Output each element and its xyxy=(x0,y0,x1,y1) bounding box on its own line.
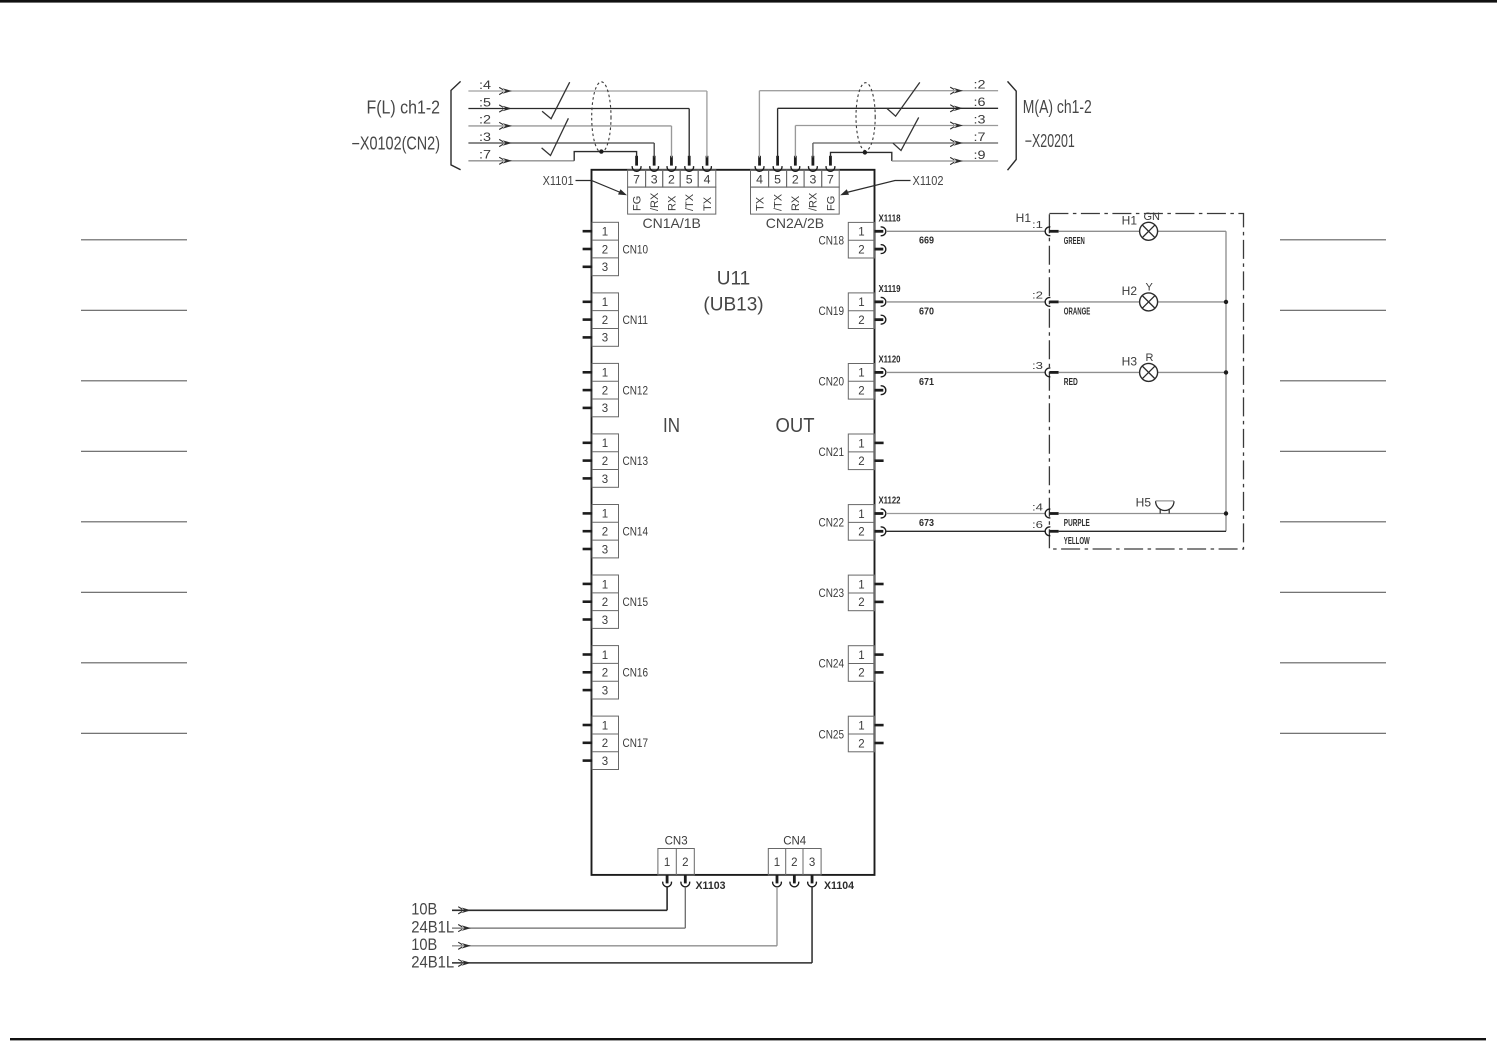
right twist mark pair :3/:7 xyxy=(893,117,919,150)
svg-text:CN18: CN18 xyxy=(819,233,845,247)
svg-text::3: :3 xyxy=(1032,360,1043,372)
right twist mark pair :2/:6 xyxy=(887,82,920,116)
svg-text:2: 2 xyxy=(792,172,799,186)
connector CN23 (2-pin output) xyxy=(848,575,874,611)
left shield junction dot xyxy=(599,149,603,153)
left twist mark pair :2/:3 xyxy=(542,118,569,155)
wire 671 xyxy=(886,371,1045,373)
svg-text:1: 1 xyxy=(858,650,864,662)
svg-text:1: 1 xyxy=(602,297,608,309)
svg-text:/TX: /TX xyxy=(684,193,696,211)
lamp unit enclosure (dash-dot) xyxy=(1049,214,1243,550)
svg-text:671: 671 xyxy=(919,376,934,388)
svg-text:2: 2 xyxy=(858,668,864,680)
wire green to lamp H1 xyxy=(1059,230,1140,232)
svg-text:CN4: CN4 xyxy=(783,834,806,848)
svg-text:1: 1 xyxy=(774,857,780,869)
svg-text:X1119: X1119 xyxy=(879,283,901,295)
svg-text:H2: H2 xyxy=(1122,284,1138,298)
svg-text:Y: Y xyxy=(1146,282,1154,294)
svg-text:5: 5 xyxy=(686,172,693,186)
svg-text:1: 1 xyxy=(602,227,608,239)
svg-text::9: :9 xyxy=(974,148,986,162)
connector CN15 (3-pin input) xyxy=(583,575,619,628)
svg-text::1: :1 xyxy=(1032,219,1043,231)
svg-text:CN24: CN24 xyxy=(819,657,845,671)
svg-text:CN3: CN3 xyxy=(665,834,688,848)
connector CN11 (3-pin input) xyxy=(583,293,619,346)
wire F(L) :5 to CN1A pin xyxy=(468,105,689,157)
wire lamp H3 to bus xyxy=(1158,371,1226,373)
svg-text:TX: TX xyxy=(702,196,714,211)
svg-text:OUT: OUT xyxy=(776,415,815,437)
svg-text:CN20: CN20 xyxy=(819,375,845,389)
svg-text:2: 2 xyxy=(791,857,797,869)
svg-text:RX: RX xyxy=(666,195,678,211)
svg-text:2: 2 xyxy=(858,527,864,539)
svg-text:2: 2 xyxy=(858,738,864,750)
svg-text:3: 3 xyxy=(651,172,658,186)
svg-text:CN19: CN19 xyxy=(819,304,845,318)
wire M(A) :9 (shield drain) xyxy=(831,152,999,164)
svg-text:2: 2 xyxy=(858,244,864,256)
svg-text:1: 1 xyxy=(858,579,864,591)
svg-text:M(A) ch1-2: M(A) ch1-2 xyxy=(1023,97,1092,117)
svg-text:/RX: /RX xyxy=(649,192,661,211)
junction dot H2/bus xyxy=(1224,300,1228,304)
unconnected pin stubs CN21 xyxy=(875,443,884,461)
IC unit U11 (UB13) body xyxy=(592,170,875,875)
svg-text:1: 1 xyxy=(602,720,608,732)
svg-text:X1118: X1118 xyxy=(879,212,901,224)
terminal :2 xyxy=(1045,298,1050,307)
svg-text:TX: TX xyxy=(754,196,766,211)
svg-text:670: 670 xyxy=(919,305,934,317)
svg-text:3: 3 xyxy=(602,403,608,415)
wire 673 (purple) xyxy=(886,513,1045,515)
wire M(A) :6 from CN2A pin xyxy=(778,105,999,158)
pin sockets X1122 xyxy=(875,509,886,536)
svg-text:1: 1 xyxy=(858,368,864,380)
lamp bus vertical xyxy=(1225,231,1227,531)
svg-text:ORANGE: ORANGE xyxy=(1064,305,1091,317)
svg-text::2: :2 xyxy=(974,78,986,92)
svg-text:7: 7 xyxy=(633,172,640,186)
svg-text:2: 2 xyxy=(682,857,688,869)
connector X1101 pin sockets xyxy=(632,156,711,171)
svg-text:CN16: CN16 xyxy=(623,666,649,680)
wire 669 xyxy=(886,230,1045,232)
svg-text:X1102: X1102 xyxy=(913,174,944,188)
wire yellow return inside unit xyxy=(1059,530,1226,532)
svg-text::4: :4 xyxy=(1032,501,1043,513)
junction dot H3/bus xyxy=(1224,370,1228,374)
left shield oval xyxy=(592,82,611,153)
junction dot H5/bus xyxy=(1224,511,1228,515)
svg-text:RED: RED xyxy=(1064,376,1078,388)
svg-text:R: R xyxy=(1146,352,1154,364)
connector CN20 (2-pin output) xyxy=(848,364,874,400)
connector CN19 (2-pin output) xyxy=(848,293,874,329)
wire orange to lamp H2 xyxy=(1059,301,1140,303)
buzzer H5 xyxy=(1156,501,1174,513)
svg-text:(UB13): (UB13) xyxy=(703,295,763,316)
svg-text:CN13: CN13 xyxy=(623,454,649,468)
unconnected pin stubs CN23 xyxy=(875,584,884,602)
svg-text:673: 673 xyxy=(919,517,934,529)
connector CN17 (3-pin input) xyxy=(583,716,619,769)
terminal :4 xyxy=(1045,509,1050,518)
svg-text:3: 3 xyxy=(809,172,816,186)
connector X1102 pin sockets xyxy=(755,156,835,171)
svg-text:3: 3 xyxy=(602,685,608,697)
wire F(L) :7 (shield drain) xyxy=(468,152,636,165)
lamp H2 (yellow) xyxy=(1140,293,1158,311)
svg-text:2: 2 xyxy=(602,668,608,680)
svg-text:FG: FG xyxy=(825,196,837,211)
svg-text:CN25: CN25 xyxy=(819,727,845,741)
connector CN25 (2-pin output) xyxy=(848,716,874,752)
svg-text:1: 1 xyxy=(602,368,608,380)
wire lamp H2 to bus xyxy=(1158,301,1226,303)
svg-text:3: 3 xyxy=(602,756,608,768)
svg-text:CN12: CN12 xyxy=(623,383,649,397)
svg-text:X1104: X1104 xyxy=(824,880,855,892)
svg-text:3: 3 xyxy=(602,544,608,556)
wire F(L) :4 to CN1A pin xyxy=(468,87,707,157)
svg-text:CN15: CN15 xyxy=(623,595,649,609)
label X1101 with leader arrow xyxy=(543,174,627,195)
svg-text:IN: IN xyxy=(663,415,680,437)
svg-text:/TX: /TX xyxy=(772,193,784,211)
svg-text:CN21: CN21 xyxy=(819,445,845,459)
svg-text:1: 1 xyxy=(858,227,864,239)
wire 24B1L to CN3 xyxy=(452,887,685,932)
svg-text:FG: FG xyxy=(631,196,643,211)
unconnected pin stubs CN25 xyxy=(875,725,884,743)
svg-text:YELLOW: YELLOW xyxy=(1064,535,1090,547)
terminal :3 xyxy=(1045,368,1050,377)
svg-text:CN14: CN14 xyxy=(623,525,649,539)
svg-text:3: 3 xyxy=(809,857,815,869)
svg-text:2: 2 xyxy=(858,315,864,327)
wire 670 xyxy=(886,301,1045,303)
connector CN4 (3-pin) xyxy=(768,849,821,875)
svg-text:2: 2 xyxy=(602,456,608,468)
svg-text:X1120: X1120 xyxy=(879,354,901,366)
svg-text:−X0102(CN2): −X0102(CN2) xyxy=(352,134,441,154)
unconnected pin stubs CN24 xyxy=(875,655,884,673)
connector CN14 (3-pin input) xyxy=(583,505,619,558)
svg-text:H3: H3 xyxy=(1122,354,1138,368)
svg-text:24B1L: 24B1L xyxy=(411,918,454,937)
svg-text:U11: U11 xyxy=(717,269,750,290)
pin sockets X1120 xyxy=(875,368,886,395)
terminal :1 xyxy=(1045,227,1050,236)
svg-text::4: :4 xyxy=(479,78,491,92)
svg-text::6: :6 xyxy=(1032,519,1043,531)
wire F(L) :3 to CN1A pin xyxy=(468,139,654,157)
svg-text:CN23: CN23 xyxy=(819,586,845,600)
connector CN13 (3-pin input) xyxy=(583,434,619,487)
right harness bracket xyxy=(1008,81,1017,170)
lamp H1 (green) xyxy=(1140,222,1158,240)
svg-text::3: :3 xyxy=(479,130,491,144)
svg-text:1: 1 xyxy=(602,650,608,662)
svg-text:CN22: CN22 xyxy=(819,516,845,530)
svg-text:2: 2 xyxy=(602,315,608,327)
svg-text:3: 3 xyxy=(602,615,608,627)
connector CN12 (3-pin input) xyxy=(583,363,619,416)
svg-text:−X20201: −X20201 xyxy=(1025,131,1075,151)
svg-text:10B: 10B xyxy=(411,900,437,919)
svg-text:GN: GN xyxy=(1144,211,1161,223)
svg-text:1: 1 xyxy=(858,509,864,521)
pin sockets X1118 xyxy=(875,227,886,254)
wire F(L) :2 to CN1A pin xyxy=(468,122,671,157)
wire lamp H1 to bus xyxy=(1158,230,1226,232)
svg-text:CN10: CN10 xyxy=(623,242,649,256)
connector CN24 (2-pin output) xyxy=(848,646,874,682)
svg-text:2: 2 xyxy=(858,386,864,398)
svg-text:4: 4 xyxy=(756,172,763,186)
connector CN1A/1B (pins 7 3 2 5 4 : FG /RX RX /TX TX) xyxy=(628,170,716,214)
svg-text:1: 1 xyxy=(602,438,608,450)
connector CN2A/2B (pins 4 5 2 3 7 : TX /TX RX /RX FG) xyxy=(751,170,840,214)
svg-text:2: 2 xyxy=(602,527,608,539)
svg-text:669: 669 xyxy=(919,235,934,247)
pin sockets X1103 xyxy=(663,875,690,887)
terminal :6 xyxy=(1045,527,1050,536)
svg-text:F(L) ch1-2: F(L) ch1-2 xyxy=(367,98,441,118)
svg-text:H5: H5 xyxy=(1136,496,1152,510)
svg-text:1: 1 xyxy=(664,857,670,869)
svg-text:2: 2 xyxy=(602,244,608,256)
connector CN21 (2-pin output) xyxy=(848,434,874,470)
svg-text:3: 3 xyxy=(602,333,608,345)
wire 10B to CN3 xyxy=(452,887,667,914)
connector CN16 (3-pin input) xyxy=(583,646,619,699)
svg-text:1: 1 xyxy=(858,297,864,309)
wire purple through buzzer H5 xyxy=(1059,513,1226,515)
svg-text:X1122: X1122 xyxy=(879,495,901,507)
svg-text::7: :7 xyxy=(974,130,986,144)
svg-text:/RX: /RX xyxy=(808,192,820,211)
svg-text::2: :2 xyxy=(479,113,491,127)
svg-text:RX: RX xyxy=(790,195,802,211)
svg-text:GREEN: GREEN xyxy=(1064,235,1085,247)
left twist mark pair :4/:5 xyxy=(542,82,570,119)
svg-text:1: 1 xyxy=(858,438,864,450)
svg-text:X1101: X1101 xyxy=(543,174,574,188)
svg-text:1: 1 xyxy=(858,720,864,732)
wire red to lamp H3 xyxy=(1059,371,1140,373)
label X1102 with leader arrow xyxy=(840,174,943,195)
svg-text:CN11: CN11 xyxy=(623,313,649,327)
pin sockets X1119 xyxy=(875,297,886,324)
pin sockets X1104 xyxy=(773,875,817,887)
svg-text::2: :2 xyxy=(1032,290,1043,302)
connector CN10 (3-pin input) xyxy=(583,222,619,275)
svg-text:PURPLE: PURPLE xyxy=(1064,517,1090,529)
svg-text:7: 7 xyxy=(827,172,834,186)
svg-text:2: 2 xyxy=(602,738,608,750)
svg-text:CN1A/1B: CN1A/1B xyxy=(643,215,701,231)
connector CN22 (2-pin output) xyxy=(848,505,874,541)
left harness bracket xyxy=(451,81,461,169)
wire M(A) :2 from CN2A pin xyxy=(759,87,998,157)
svg-text:2: 2 xyxy=(602,597,608,609)
svg-text:4: 4 xyxy=(704,172,711,186)
svg-text:H1: H1 xyxy=(1016,211,1032,225)
wire M(A) :7 from CN2A pin xyxy=(813,139,998,157)
right shield oval xyxy=(856,83,875,151)
svg-text:3: 3 xyxy=(602,474,608,486)
svg-text::3: :3 xyxy=(974,112,986,126)
svg-text:24B1L: 24B1L xyxy=(411,952,454,971)
svg-text:X1103: X1103 xyxy=(696,880,726,892)
svg-text:CN2A/2B: CN2A/2B xyxy=(766,215,824,231)
svg-text::7: :7 xyxy=(479,148,491,162)
svg-text:2: 2 xyxy=(602,385,608,397)
connector CN18 (2-pin output) xyxy=(848,222,874,258)
wire 10B to CN4 xyxy=(452,887,777,950)
svg-text::6: :6 xyxy=(974,95,986,109)
svg-text:2: 2 xyxy=(668,172,675,186)
svg-text:CN17: CN17 xyxy=(623,736,649,750)
svg-text:2: 2 xyxy=(858,456,864,468)
svg-text:5: 5 xyxy=(774,172,781,186)
svg-text::5: :5 xyxy=(479,95,491,109)
lamp H3 (red) xyxy=(1140,363,1158,381)
svg-text:3: 3 xyxy=(602,262,608,274)
svg-text:H1: H1 xyxy=(1122,213,1138,227)
svg-text:1: 1 xyxy=(602,579,608,591)
wire M(A) :3 from CN2A pin xyxy=(795,122,998,157)
wire 24B1L to CN4 xyxy=(452,887,812,967)
right shield junction dot xyxy=(863,150,867,154)
svg-text:1: 1 xyxy=(602,509,608,521)
connector CN3 (2-pin) xyxy=(658,849,694,875)
wire yellow return xyxy=(886,530,1045,532)
svg-text:2: 2 xyxy=(858,597,864,609)
